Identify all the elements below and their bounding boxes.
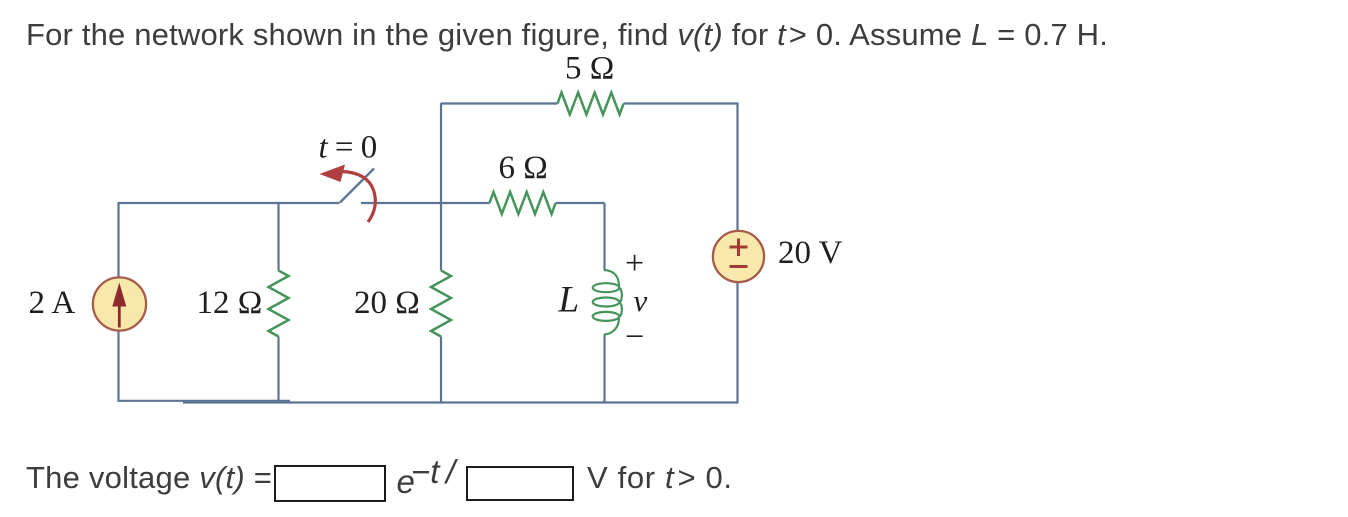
svg-text:6 Ω: 6 Ω [499,150,548,186]
current source arrow [118,306,121,328]
resistor 6 ohm [490,192,556,214]
switch opening arrow arc [342,172,375,223]
resistor 5 ohm [558,93,624,115]
svg-text:v: v [634,283,648,318]
wire: bottom horizontal main [183,401,739,403]
svg-text:12 Ω: 12 Ω [197,285,263,321]
voltage source 20V circle [713,231,764,282]
answer input box 2 [466,466,574,501]
svg-text:5 Ω: 5 Ω [565,51,614,87]
inductor L coil [593,270,622,335]
voltage source minus sign [730,265,748,268]
wire: 12ohm branch vertical [277,203,279,403]
svg-text:−: − [625,319,644,356]
current source 2A circle [93,277,146,330]
resistor 20 ohm [431,271,451,337]
resistor 12 ohm [269,271,289,337]
wire: inductor branch vertical [603,203,605,402]
svg-text:2 A: 2 A [29,285,76,321]
wire: top horizontal left of 5ohm [441,102,558,104]
question text line [26,17,1108,53]
answer input box 1 [274,465,386,502]
wire: middle horizontal right of 6ohm resistor [556,202,605,204]
wire: top horizontal right of 5ohm [624,102,739,104]
wire: middle horizontal left of switch [118,202,340,204]
wire: 20ohm branch vertical [440,103,442,403]
answer line text [26,460,272,496]
svg-text:20 Ω: 20 Ω [354,285,420,321]
svg-text:t = 0: t = 0 [319,130,377,166]
wire: bottom horizontal [118,400,291,402]
svg-text:L: L [558,280,580,321]
wire: middle horizontal right of switch [361,202,490,204]
switch arrow head [320,165,346,183]
voltage source plus sign [730,239,748,257]
svg-text:+: + [625,245,644,282]
switch blade (t=0) [340,169,374,203]
answer line tail text [587,460,733,496]
exponential e^-t/ [397,463,415,501]
svg-text:20 V: 20 V [778,235,843,271]
wire: left vertical branch [117,203,119,401]
wire: right vertical branch with 20V source [736,103,738,403]
